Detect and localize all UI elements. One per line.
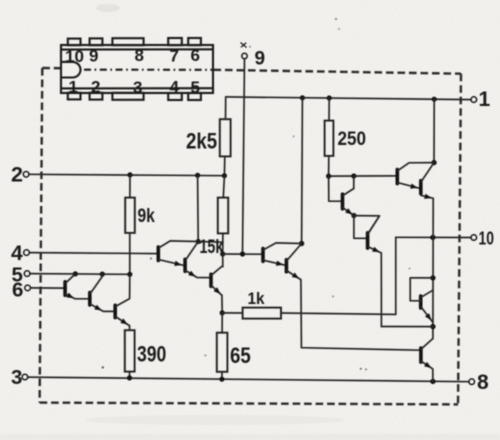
wire Q4 Q5 collector node across to R4 column xyxy=(198,241,223,244)
wire R5 1k right lead to riser xyxy=(281,313,396,314)
wire pin 10 horizontal xyxy=(396,236,471,238)
PACKAGE xyxy=(61,38,213,100)
node pin 2 terminal xyxy=(23,172,29,178)
node right vertical / Q13 base loop xyxy=(430,275,435,280)
transistor Q10 diode-connected xyxy=(368,216,382,253)
wire pin 4 input xyxy=(30,253,159,254)
resistor R5 1k (horizontal) xyxy=(243,308,281,319)
wire pin 9 vertical xyxy=(243,59,245,254)
node ground rail / Q14 emitter xyxy=(430,379,435,384)
wire R6 390 bottom to ground rail xyxy=(129,372,131,378)
node pin 3 terminal xyxy=(22,374,28,380)
x mark above pin 9 xyxy=(241,43,247,48)
wire riser up to pin 10 line xyxy=(395,237,397,314)
wire R3 9k top feed xyxy=(129,175,131,198)
IC package bottom pin tab 1 xyxy=(68,93,81,100)
node pin2 rail / drop to Q4 Q5 collectors xyxy=(195,173,200,178)
resistor R6 390 xyxy=(125,330,135,371)
node pin 8 terminal xyxy=(469,379,475,385)
IC package index notch xyxy=(62,62,81,78)
wire R4 15k bottom to base node xyxy=(222,233,224,254)
node Q6 emitter / R5 1k left / R7 65 top xyxy=(220,310,225,315)
wire top rail down to Q7 Q8 collector node xyxy=(301,98,304,244)
transistor Q13 diode-connected near pin 10 xyxy=(410,278,433,322)
node pin 1 terminal xyxy=(471,97,477,103)
wire dashed IC boundary bottom border xyxy=(40,403,458,405)
wire R3 9k bottom to pin5 rail xyxy=(129,233,131,274)
wire pin2 rail down to Q4 Q5 collector line xyxy=(197,175,200,241)
wire Q10 base L-leg xyxy=(354,216,368,239)
IC package top pin tab 9 xyxy=(90,38,103,45)
IC package centre dash-dot line xyxy=(84,69,213,71)
transistor Q6 xyxy=(211,267,223,296)
wire R4 node down to Q6 collector xyxy=(222,254,224,267)
TERMINALS xyxy=(22,43,477,385)
wire R1 2k5 bottom to pin 2 rail xyxy=(223,156,225,175)
resistor R2 250 xyxy=(325,121,334,156)
transistor Q3 (emitter into R6 390) xyxy=(115,274,130,325)
node pin2 rail / R1-R4 junction xyxy=(222,173,227,178)
wire dashed IC boundary left border xyxy=(40,68,43,403)
node top rail / Q11 Q12 collector drop xyxy=(432,97,437,102)
resistor R3 9k xyxy=(125,198,135,233)
wire dashed IC boundary top border xyxy=(214,70,462,74)
wire pin 5 input rail xyxy=(30,273,130,276)
IC package bottom pin tab 5 xyxy=(188,93,201,100)
wire R7 65 bottom to ground rail xyxy=(221,372,223,379)
wire Q10 emitter across to right vertical xyxy=(381,326,433,328)
IC package bottom pin tab 4 xyxy=(168,93,182,100)
transistor Q5 xyxy=(185,242,211,278)
transistor Q2 (cascade of Q1) xyxy=(90,274,115,311)
node Q11 Q12 collector junction xyxy=(431,160,436,165)
transistor Q14 output (emitter to ground rail) xyxy=(421,339,433,382)
node Q7 Q8 collector junction xyxy=(299,241,304,246)
node right vertical / Q13 emitter / Q10 emitter xyxy=(430,324,435,329)
node pin 9 terminal xyxy=(242,53,247,58)
IC package body outline xyxy=(61,45,213,93)
node pin 4 terminal xyxy=(24,250,30,256)
IC package top wide pin tab 8 xyxy=(112,38,143,45)
IC package top pin tab 6 xyxy=(188,38,201,45)
node pin2 rail / R3 9k top xyxy=(127,172,132,177)
resistor R7 65 xyxy=(217,333,228,372)
wire pin 2 input rail xyxy=(29,174,224,175)
transistor Q11 darlington first xyxy=(397,163,434,189)
node ground rail / R6 390 xyxy=(127,375,132,380)
wire Q10 emitter drop xyxy=(380,253,382,327)
wire Q9 base-collector node line to Q11 base xyxy=(329,175,398,177)
node R4 bottom / Q7 base line xyxy=(220,251,225,256)
wire Q7 base line from R4 node xyxy=(223,253,263,255)
resistor R1 2k5 xyxy=(220,119,231,156)
IC package top pin tab 10 xyxy=(68,39,81,46)
transistor Q9 diode-connected under R2 xyxy=(343,189,354,216)
transistor Q8 xyxy=(286,244,301,280)
transistor Q12 darlington second xyxy=(421,163,434,199)
IC package inner bottom edge line xyxy=(61,87,213,89)
IC package bottom wide pin tab 3 xyxy=(112,93,143,100)
node pin 5 terminal xyxy=(24,271,30,277)
node Q9 emitter / Q10 tie xyxy=(351,213,356,218)
node top rail / R1 2k5 column xyxy=(300,95,305,100)
node pin5 / Q1 collector xyxy=(73,271,78,276)
node Q9 collector tie xyxy=(351,173,356,178)
node pin5 / Q2 collector xyxy=(100,272,105,277)
wire ground rail pin 3 to pin 8 xyxy=(28,377,469,382)
wire Q8 emitter drop to Q14 base xyxy=(301,280,421,351)
wire node into R7 65 xyxy=(221,313,223,333)
wire Q10 collector tie back to node xyxy=(354,216,380,234)
node pin 10 line / right vertical xyxy=(430,235,435,240)
wire R4 15k top feed xyxy=(223,176,224,198)
wire Q6 emitter down to 1k node xyxy=(221,295,223,313)
node R2 bottom / Q9 base leg xyxy=(326,174,331,179)
transistor Q1 input (base pin 6) xyxy=(65,274,89,299)
transistor Q7 (base pin 9) xyxy=(263,243,302,266)
wire V+ top rail to pin 1 xyxy=(226,97,471,100)
transistor Q4 (base pin 4) xyxy=(158,241,198,266)
RESISTORS xyxy=(125,119,334,372)
resistor R4 15k xyxy=(218,198,228,234)
wire Q3 emitter into R6 390 xyxy=(129,326,131,331)
node pin 9 line joins Q7 base line xyxy=(240,251,245,256)
node Q4 Q5 collector junction xyxy=(196,239,201,244)
node pin 10 terminal xyxy=(471,235,477,241)
wire dashed IC boundary right border xyxy=(458,74,461,405)
IC package inner top edge line xyxy=(61,48,213,50)
wire pin 6 input xyxy=(31,287,65,289)
node pin5 / R3 bottom / Q3 collector xyxy=(127,272,132,277)
wire Q12 emitter down the right vertical to Q14 collector xyxy=(432,198,434,338)
TRANSISTORS xyxy=(65,163,434,382)
IC package top pin tab 7 xyxy=(168,38,182,45)
wire dashed IC boundary top-left stub xyxy=(42,67,61,70)
wire Q9 base L-leg xyxy=(329,176,343,201)
wire R5 1k left lead xyxy=(222,312,242,314)
wire top rail into R2 250 xyxy=(328,98,330,121)
wire top rail into R1 2k5 xyxy=(225,97,227,119)
node top rail / R2 250 column xyxy=(327,95,332,100)
node pin 6 terminal xyxy=(25,285,31,291)
node ground rail / R7 65 xyxy=(219,377,224,382)
wire top rail down to Q11 Q12 collector dot xyxy=(433,99,435,162)
IC package bottom pin tab 2 xyxy=(90,93,103,100)
wire R2 250 bottom to Q9 node xyxy=(328,156,330,176)
wire Q9 collector tie vertical xyxy=(353,176,355,189)
